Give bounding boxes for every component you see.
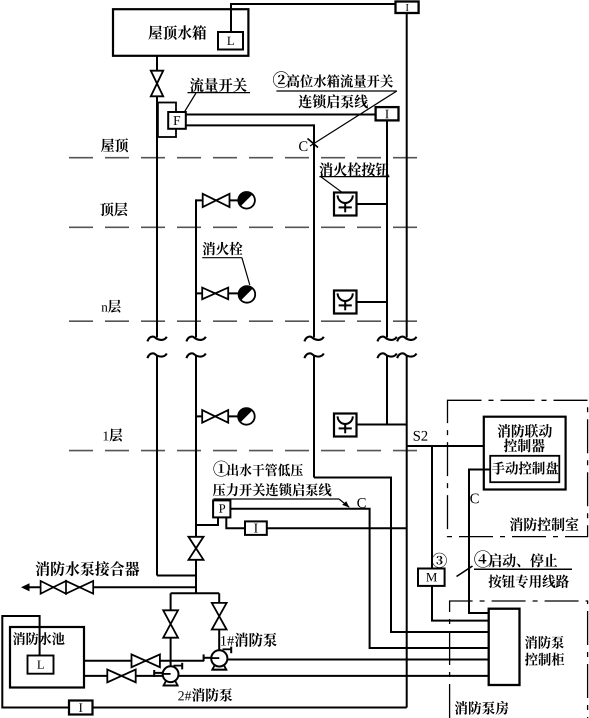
wire hydrant-button riser from I2 (386, 119, 388, 338)
node C label (roof) (299, 141, 307, 151)
wire node C riser (below break) (313, 355, 315, 477)
wire 顶层 hydrant button to riser (357, 203, 388, 205)
label 屋顶水箱 (148, 25, 206, 40)
wire 1层 hydrant button to riser (357, 424, 407, 426)
hydrant button B1 顶层 消火栓按钮 (334, 193, 357, 216)
wire I3 to input-module line (267, 527, 407, 529)
wire S2 branch down to module M (431, 446, 433, 569)
node 1层 level dashed line (69, 450, 426, 452)
pump control cabinet box 消防泵控制柜 (489, 609, 520, 685)
label 2#消防泵 (178, 688, 232, 702)
hydrant button B2 n层 (334, 291, 357, 314)
wire S2 line to fire linkage controller (407, 445, 485, 447)
hydrant H3 1层 消火栓 (238, 408, 255, 425)
wire M to pump control cabinet (432, 586, 489, 621)
wire node C riser (upper) (313, 124, 315, 337)
pipe 1层 hydrant branch (196, 415, 239, 417)
break symbol on module line (397, 337, 416, 359)
pump2 suction flange bar (153, 670, 155, 677)
pool box 消防水池 (10, 627, 84, 688)
node 屋顶 roof level dashed line (69, 157, 426, 159)
label 消防水池 (13, 632, 65, 645)
label 消防联动 (498, 424, 552, 438)
wire pump1 to cabinet (224, 659, 489, 661)
wire pump2 suction & cabinet line (84, 675, 489, 677)
module M (③) (418, 569, 445, 586)
pipe pump1 suction from pool (84, 660, 204, 662)
node 消防控制室 fire control room dashed boundary (448, 400, 588, 536)
node C label (P line) (357, 498, 365, 508)
valve V4 1层 branch (202, 410, 228, 423)
pump P2 2#消防泵 (163, 666, 179, 685)
label 手动控制盘 (492, 461, 558, 474)
pipe 顶层 hydrant branch (196, 199, 239, 201)
pipe siamese connection line (27, 586, 196, 588)
pipe n层 hydrant branch (196, 292, 239, 294)
pipe tank drain down from 屋顶水箱 (156, 56, 158, 71)
valve V2 顶层 branch (203, 194, 230, 207)
label ②高位水箱流量开关 (273, 71, 393, 88)
wire P bottom stub to pipe (196, 517, 218, 525)
node n层 level dashed line (69, 320, 426, 322)
hydrant H1 顶层 消火栓 (238, 192, 255, 209)
wire n层 hydrant button to riser (357, 301, 388, 303)
valve V6 siamese double valve (41, 581, 94, 594)
wire manual control panel to cabinet (net C) (469, 470, 490, 614)
siamese inlet arrow (21, 583, 30, 591)
label 消火栓 (203, 242, 243, 255)
label 消防水泵接合器 (36, 561, 140, 576)
pipe pump1 discharge to pump (218, 630, 220, 652)
pipe pump2 discharge riser (170, 593, 172, 610)
node C label (manual panel) (470, 494, 478, 504)
pump P1 1#消防泵 (211, 650, 227, 669)
leader 消火栓 (202, 258, 250, 285)
wire input-module line (below break) down to bottom (406, 355, 408, 707)
leader ② text to node C (276, 91, 396, 148)
pipe pump2 discharge to pump (170, 638, 172, 667)
break symbol on button line (377, 337, 396, 359)
manual panel box 手动控制盘 (490, 456, 559, 482)
leader ① text to wire (213, 499, 349, 508)
flow switch body (158, 103, 176, 138)
pipe pump discharge header (171, 592, 220, 594)
tank 屋顶水箱 (113, 9, 248, 56)
wire pressure switch P to node C corner (230, 509, 489, 648)
label 控制器 (504, 439, 545, 453)
break symbol on tank drain (147, 337, 166, 359)
label 控制柜 (525, 653, 564, 666)
node 顶层 top-floor level dashed line (69, 226, 426, 228)
wire flow-switch F to input module I2 (185, 114, 376, 116)
flow switch F box (168, 112, 186, 129)
wire flow-switch F to node C (horizontal) (185, 124, 314, 126)
wire bottom input module I4 line (2, 616, 406, 708)
label 压力开关连锁启泵线 (213, 483, 332, 496)
label 按钮专用线路 (489, 574, 569, 588)
pipe riser to pump header (195, 560, 197, 593)
label 屋顶 (101, 138, 128, 152)
wire hydrant-button riser (below break) (386, 355, 388, 424)
pipe pump2 suction into pump (154, 672, 170, 674)
label ③ (432, 553, 447, 568)
label 流量开关 (190, 78, 247, 92)
wire input-module line from I1 down (406, 13, 408, 338)
pipe tank drain (below break) (156, 355, 158, 575)
pipe hydrant riser (below break) (195, 355, 197, 537)
label 消防控制室 (510, 517, 579, 531)
valve V10 pump2 suction (107, 670, 135, 683)
controller box 消防联动控制器 (484, 417, 566, 490)
label 消火栓按钮 (319, 162, 389, 176)
pipe tank drain through flow switch (156, 96, 158, 337)
label 1#消防泵 (221, 633, 277, 647)
label 消防泵房 (455, 701, 509, 715)
valve V5 on riser above pump header (189, 537, 204, 560)
input module I1 (top) (396, 2, 419, 14)
wire node C jog right (314, 478, 489, 633)
valve V8 pump2 discharge (163, 610, 178, 637)
label ④启动、停止 (474, 550, 557, 567)
leader 消火栓按钮 (319, 177, 389, 193)
label 1层 (104, 428, 123, 441)
input module I3 (245, 521, 267, 535)
break symbol on hydrant riser (186, 337, 205, 359)
input module I4 (bottom) (69, 701, 93, 715)
break symbol on net C (304, 337, 323, 359)
pump1 right flange stub (223, 647, 232, 654)
label 消防泵 (525, 636, 564, 649)
node 消防泵房 pump room dashed boundary (450, 601, 588, 718)
leader 流量开关 (185, 93, 250, 112)
label 连锁启泵线 (299, 94, 368, 108)
pressure switch P box (213, 500, 230, 517)
wire P second stub to I3 (226, 517, 245, 528)
pump2 right flange stub (174, 663, 183, 670)
label 顶层 (100, 202, 127, 216)
pipe hydrant riser (195, 199, 197, 337)
input module I2 (376, 107, 399, 120)
pipe pump1 suction into pump (204, 657, 219, 659)
level sensor L2 in pool (28, 656, 54, 674)
label n层 (101, 300, 120, 313)
leader ④ text to net C wire (457, 566, 573, 577)
valve V1 below tank (151, 71, 163, 97)
node S2 label (414, 431, 428, 441)
hydrant button B3 1层 (334, 414, 357, 437)
valve V7 pump1 discharge (212, 603, 227, 630)
level sensor L1 in tank (218, 32, 243, 50)
label ①出水干管低压 (213, 461, 303, 477)
pipe tank drain elbow to riser (157, 575, 196, 577)
hydrant H2 n层 消火栓 (239, 286, 256, 303)
pipe pump1 discharge riser (218, 593, 220, 603)
pump1 suction flange bar (203, 654, 205, 661)
wire tank level sensor L to input module I1 (231, 4, 397, 32)
valve V3 n层 branch (202, 288, 228, 300)
valve V9 pump1 suction (132, 654, 160, 667)
